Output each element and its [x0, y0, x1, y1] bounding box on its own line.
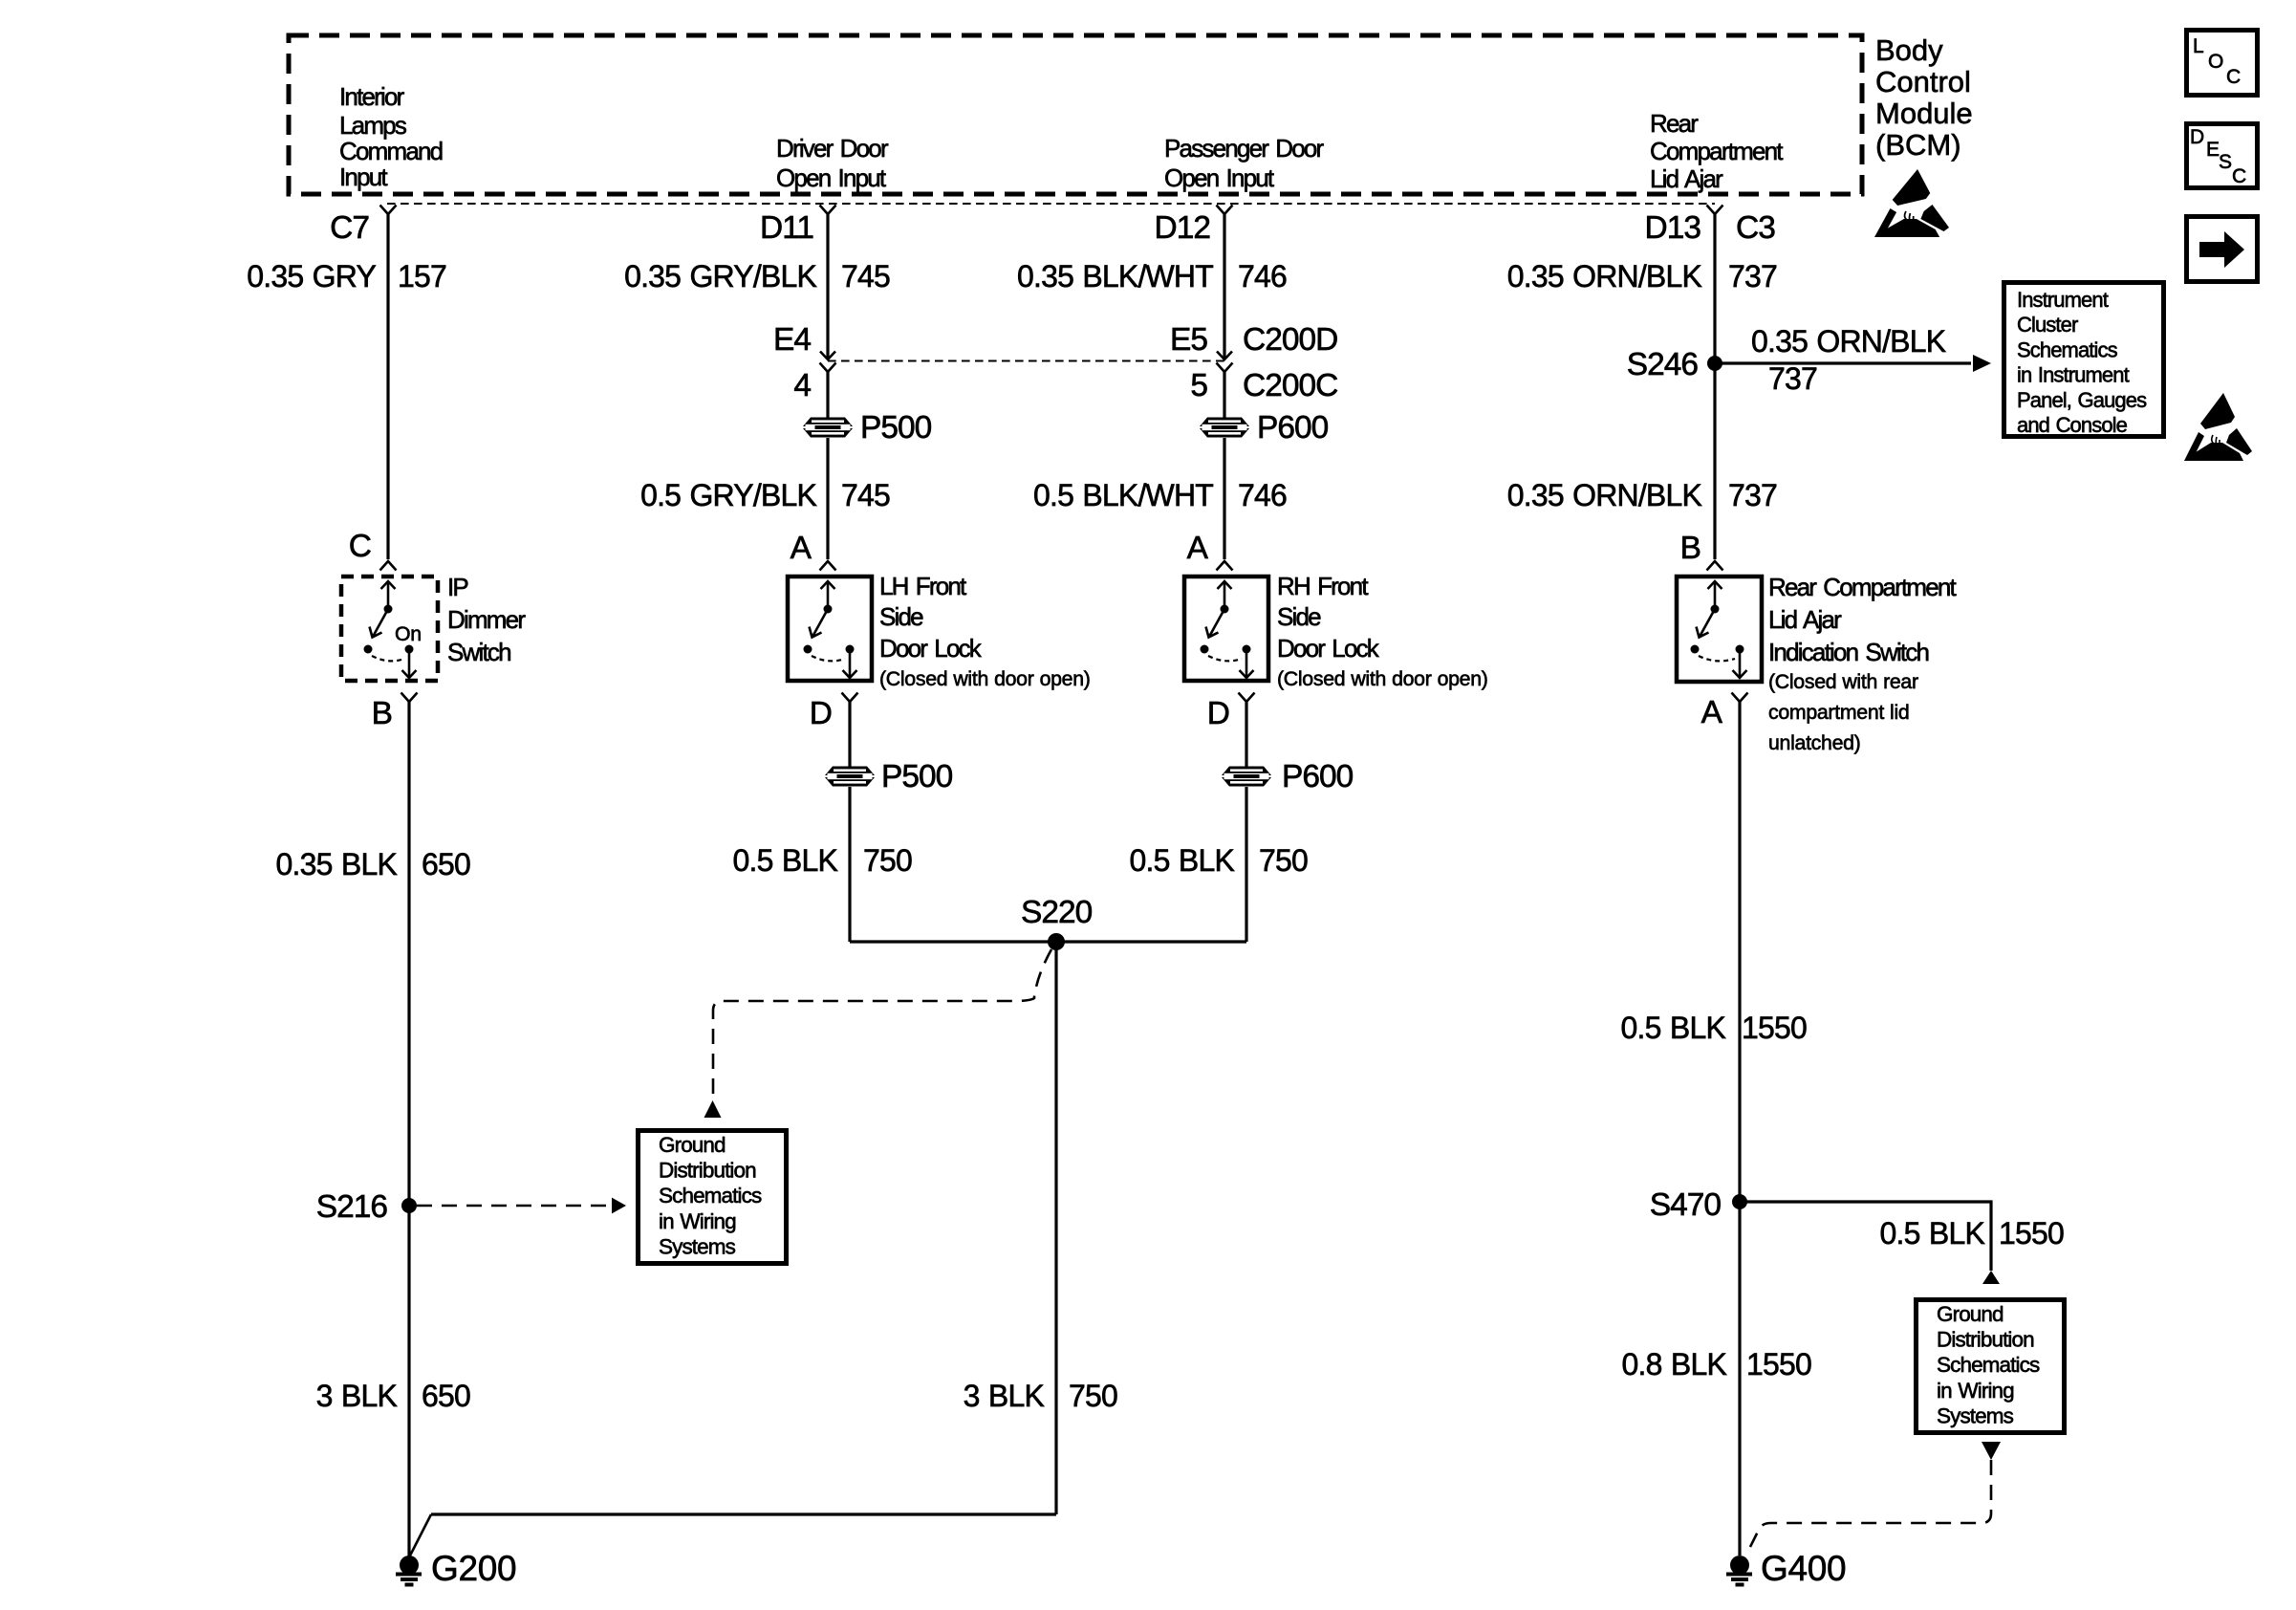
svg-text:650: 650 [422, 1379, 470, 1413]
svg-text:0.8 BLK: 0.8 BLK [1622, 1347, 1727, 1382]
pin A of LH front side door lock: fork [820, 561, 836, 571]
svg-text:Module: Module [1875, 97, 1973, 130]
svg-text:A: A [1701, 695, 1723, 730]
wire: 0.35 ORN/BLK 737 [1713, 214, 1716, 559]
svg-text:B: B [1680, 531, 1700, 566]
svg-text:P500: P500 [881, 759, 953, 794]
svg-text:Rear: Rear [1650, 109, 1699, 138]
DESC legend box [2187, 124, 2258, 188]
svg-text:O: O [2208, 51, 2223, 73]
ESD sensitive device symbol (instrument cluster) [2184, 393, 2252, 461]
svg-text:in Wiring: in Wiring [1937, 1379, 2014, 1403]
in-line connector E5: socket fork [1217, 363, 1233, 373]
arrowhead (up) above ground distribution box [704, 1100, 722, 1118]
in-line connector E4: socket fork [820, 363, 836, 373]
splice S246 [1707, 356, 1722, 371]
svg-text:746: 746 [1238, 259, 1287, 294]
svg-text:S246: S246 [1627, 347, 1699, 382]
node D13/C3: BCM connector pin fork [1707, 206, 1723, 215]
svg-text:0.5 BLK: 0.5 BLK [1130, 843, 1235, 878]
rear compartment lid ajar switch contacts and arm [1691, 581, 1747, 678]
svg-text:737: 737 [1728, 259, 1777, 294]
svg-text:1550: 1550 [1746, 1347, 1811, 1382]
pass-through grommet P500 (lower) [825, 767, 875, 787]
svg-text:Open Input: Open Input [776, 163, 887, 192]
pass-through grommet P500 [803, 418, 853, 438]
svg-text:A: A [1187, 531, 1209, 566]
svg-text:C3: C3 [1736, 210, 1775, 246]
svg-text:P600: P600 [1282, 759, 1354, 794]
svg-text:3 BLK: 3 BLK [316, 1379, 398, 1413]
svg-text:Open Input: Open Input [1164, 163, 1275, 192]
svg-text:Ground: Ground [1937, 1302, 2004, 1326]
svg-text:(Closed with door open): (Closed with door open) [1277, 667, 1488, 690]
dashed reference path from S220 to ground distribution schematics box [713, 949, 1051, 1094]
svg-text:750: 750 [1259, 843, 1308, 878]
svg-text:737: 737 [1728, 478, 1777, 512]
svg-text:(BCM): (BCM) [1875, 128, 1961, 162]
ESD sensitive device symbol (BCM) [1874, 169, 1949, 237]
arrowhead (up) above right ground distribution box [1982, 1271, 2000, 1284]
BCM pin header dashed connector line [387, 203, 1715, 205]
svg-text:On: On [395, 622, 422, 645]
wire: 0.5 BLK 750 to S220 [848, 787, 851, 942]
svg-text:Control: Control [1875, 65, 1971, 98]
splice S216 [401, 1198, 417, 1213]
svg-text:1550: 1550 [1999, 1216, 2064, 1251]
svg-text:IP: IP [447, 573, 467, 601]
node C7: BCM connector pin fork [380, 206, 397, 215]
wire: 0.35 GRY/BLK 745 [826, 214, 829, 359]
LOC legend box [2187, 31, 2258, 96]
svg-text:5: 5 [1190, 368, 1207, 403]
svg-text:S470: S470 [1650, 1187, 1722, 1223]
wire from D to P600 [1245, 702, 1247, 767]
svg-text:0.35 ORN/BLK: 0.35 ORN/BLK [1507, 259, 1702, 294]
arrowhead into instrument cluster box [1973, 355, 1991, 372]
svg-text:(Closed with door open): (Closed with door open) [879, 667, 1091, 690]
svg-text:Schematics: Schematics [2017, 337, 2118, 361]
svg-text:4: 4 [793, 368, 811, 403]
svg-text:Switch: Switch [447, 638, 510, 666]
pin B of rear compartment lid ajar switch: fork [1707, 561, 1723, 571]
in-line connector E5/C200D: pin arrow [1217, 352, 1232, 360]
svg-text:S220: S220 [1021, 895, 1093, 930]
svg-text:Ground: Ground [659, 1133, 726, 1157]
svg-text:0.5 BLK/WHT: 0.5 BLK/WHT [1033, 478, 1213, 512]
svg-text:0.35 BLK/WHT: 0.35 BLK/WHT [1017, 259, 1213, 294]
RH Front Side Door Lock switch box [1184, 577, 1268, 681]
ground G200 [396, 1556, 422, 1585]
wire: 0.5 GRY/BLK 745 [826, 438, 829, 559]
svg-text:C: C [349, 529, 371, 564]
pin C of IP dimmer switch: fork [380, 561, 397, 571]
svg-text:(Closed with rear: (Closed with rear [1768, 670, 1918, 693]
svg-text:Door Lock: Door Lock [1277, 634, 1380, 663]
svg-text:Lid Ajar: Lid Ajar [1650, 164, 1723, 193]
pin B of IP dimmer switch: fork [401, 693, 418, 703]
svg-text:745: 745 [841, 478, 890, 512]
pin A of rear compartment lid ajar switch: fork [1732, 693, 1748, 703]
svg-text:E5: E5 [1170, 322, 1207, 358]
svg-text:0.35 ORN/BLK: 0.35 ORN/BLK [1751, 324, 1946, 359]
arrow icon [2199, 231, 2244, 268]
svg-text:0.5 BLK: 0.5 BLK [1621, 1011, 1726, 1045]
svg-text:750: 750 [1069, 1379, 1117, 1413]
node D12: BCM connector pin fork [1217, 206, 1233, 215]
svg-text:Door Lock: Door Lock [879, 634, 983, 663]
svg-text:1550: 1550 [1742, 1011, 1807, 1045]
svg-text:C7: C7 [330, 210, 369, 246]
svg-text:750: 750 [863, 843, 912, 878]
LH Front Side Door Lock switch box [788, 577, 872, 681]
wire: 0.35 BLK/WHT 746 [1223, 214, 1225, 359]
dashed reference path from box to G400 [1749, 1460, 1991, 1549]
pass-through grommet P600 (lower) [1222, 767, 1271, 787]
svg-text:G200: G200 [431, 1549, 516, 1588]
svg-text:D13: D13 [1645, 210, 1701, 246]
svg-text:0.5 BLK: 0.5 BLK [1880, 1216, 1985, 1251]
node D11: BCM connector pin fork [820, 206, 836, 215]
svg-text:650: 650 [422, 847, 470, 881]
svg-text:Command: Command [339, 137, 443, 165]
Instrument Cluster Schematics reference box [2004, 283, 2164, 437]
wire branch from S246 to instrument cluster schematics [1715, 361, 1971, 364]
Body Control Module (BCM) dashed outline box [289, 35, 1862, 194]
svg-text:Lid Ajar: Lid Ajar [1768, 605, 1842, 634]
splice S470 [1732, 1194, 1747, 1209]
svg-text:Systems: Systems [659, 1234, 736, 1258]
svg-text:unlatched): unlatched) [1768, 731, 1860, 754]
Ground Distribution Schematics in Wiring Systems box (left) [639, 1131, 787, 1264]
Ground Distribution Schematics in Wiring Systems box (right) [1917, 1300, 2065, 1433]
svg-text:B: B [372, 696, 392, 731]
in-line connector dashed line E4/E5 [828, 360, 1224, 362]
svg-text:LH Front: LH Front [879, 572, 967, 600]
svg-text:Dimmer: Dimmer [447, 605, 526, 634]
ground G400 [1726, 1556, 1752, 1585]
svg-text:0.35 GRY: 0.35 GRY [247, 259, 376, 294]
RH door lock switch contacts and arm [1201, 581, 1254, 678]
svg-text:C200C: C200C [1243, 368, 1337, 403]
svg-text:Instrument: Instrument [2017, 288, 2109, 312]
svg-text:Schematics: Schematics [659, 1184, 762, 1207]
svg-text:RH Front: RH Front [1277, 572, 1369, 600]
in-line connector E4: pin arrow [820, 352, 835, 360]
LH door lock switch contacts and arm [804, 581, 857, 678]
svg-text:Schematics: Schematics [1937, 1353, 2040, 1377]
svg-text:Cluster: Cluster [2017, 313, 2078, 337]
svg-text:Rear Compartment: Rear Compartment [1768, 573, 1958, 601]
svg-text:0.35 ORN/BLK: 0.35 ORN/BLK [1507, 478, 1702, 512]
wire to P600 [1223, 372, 1225, 418]
svg-text:Interior: Interior [339, 82, 405, 111]
wire branch from S470 to ground distribution (right) [1740, 1202, 1991, 1271]
svg-text:C200D: C200D [1243, 322, 1337, 358]
wire joining LH and RH door lock grounds at S220 [850, 940, 1246, 943]
svg-text:S: S [2219, 151, 2232, 173]
wire from D to P500 [848, 702, 851, 767]
svg-text:0.35 BLK: 0.35 BLK [276, 847, 398, 881]
Rear Compartment Lid Ajar Indication Switch box [1677, 577, 1762, 682]
wire: 0.35 BLK 650 to G200 [407, 702, 410, 1556]
svg-text:0.35 GRY/BLK: 0.35 GRY/BLK [624, 259, 816, 294]
svg-text:157: 157 [398, 259, 446, 294]
svg-text:746: 746 [1238, 478, 1287, 512]
wire: 0.35 GRY 157 from BCM C7 to IP dimmer switch [386, 214, 389, 559]
svg-text:Systems: Systems [1937, 1403, 2014, 1427]
svg-text:Indication Switch: Indication Switch [1768, 638, 1929, 666]
wire: 0.5 BLK 1550 from switch to S470 [1738, 702, 1741, 1556]
svg-text:D: D [2190, 126, 2204, 148]
svg-text:in Instrument: in Instrument [2017, 363, 2130, 387]
dashed reference line from S216 to ground distribution box [417, 1205, 610, 1207]
svg-text:Input: Input [339, 163, 388, 191]
arrowhead into ground distribution box [612, 1198, 626, 1214]
svg-text:C: C [2226, 66, 2241, 88]
svg-text:and Console: and Console [2017, 413, 2128, 437]
svg-text:A: A [791, 531, 812, 566]
svg-text:P600: P600 [1257, 410, 1329, 446]
svg-text:Body: Body [1875, 33, 1943, 67]
svg-text:Driver Door: Driver Door [776, 134, 889, 163]
svg-text:3 BLK: 3 BLK [964, 1379, 1045, 1413]
svg-text:P500: P500 [860, 410, 932, 446]
svg-text:745: 745 [841, 259, 890, 294]
svg-text:737: 737 [1768, 361, 1817, 396]
svg-text:C: C [2232, 165, 2246, 187]
svg-text:D11: D11 [760, 210, 813, 246]
svg-text:Side: Side [879, 602, 923, 631]
svg-text:D: D [1207, 696, 1229, 731]
svg-text:Compartment: Compartment [1650, 137, 1784, 165]
svg-text:Distribution: Distribution [1937, 1328, 2034, 1352]
svg-text:E4: E4 [773, 322, 811, 358]
svg-text:Panel, Gauges: Panel, Gauges [2017, 388, 2147, 412]
svg-text:L: L [2193, 35, 2204, 57]
svg-text:Distribution: Distribution [659, 1159, 756, 1183]
svg-text:0.5 BLK: 0.5 BLK [733, 843, 838, 878]
svg-text:G400: G400 [1761, 1549, 1846, 1588]
wire to P500 [826, 372, 829, 418]
svg-text:D12: D12 [1155, 210, 1210, 246]
svg-text:Passenger Door: Passenger Door [1164, 134, 1325, 163]
IP dimmer switch contacts and arm [364, 581, 417, 678]
arrow legend box [2187, 217, 2258, 282]
svg-text:D: D [810, 696, 832, 731]
IP Dimmer Switch dashed box [341, 577, 438, 681]
svg-text:Lamps: Lamps [339, 111, 407, 140]
wire: 0.5 BLK/WHT 746 [1223, 438, 1225, 559]
svg-text:E: E [2206, 139, 2220, 161]
svg-text:0.5 GRY/BLK: 0.5 GRY/BLK [640, 478, 816, 512]
wire: 0.5 BLK 750 to S220 [1245, 787, 1247, 942]
pin D of RH front side door lock: fork [1239, 693, 1255, 703]
arrowhead (down) below right ground distribution box [1982, 1442, 2001, 1460]
svg-text:S216: S216 [316, 1189, 388, 1225]
pass-through grommet P600 [1200, 418, 1249, 438]
pin A of RH front side door lock: fork [1217, 561, 1233, 571]
svg-text:Side: Side [1277, 602, 1321, 631]
wire: 3 BLK 750 from S220 to G200 [1054, 942, 1057, 1514]
splice S220 [1048, 933, 1065, 950]
svg-text:in Wiring: in Wiring [659, 1209, 736, 1233]
pin D of LH front side door lock: fork [842, 693, 858, 703]
svg-text:compartment lid: compartment lid [1768, 701, 1909, 724]
